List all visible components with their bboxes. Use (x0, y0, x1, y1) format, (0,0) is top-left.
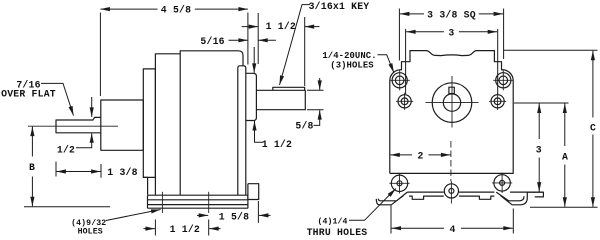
front view: mid-left tap boss (398, 95, 411, 108)
front view: bottom-right boss (494, 175, 510, 191)
svg-text:3: 3 (536, 145, 542, 156)
side view: base hole centerline left (161, 192, 163, 213)
side view: rear shaft (256, 90, 305, 109)
svg-text:1 5/8: 1 5/8 (219, 211, 249, 222)
side view: base hole centerline right (208, 192, 210, 213)
side view: motor body (180, 51, 243, 66)
side view: output shaft centerline (28, 125, 118, 127)
dimension C top extension (504, 49, 598, 51)
dimension 1 1/2 base holes (144, 228, 155, 230)
svg-text:1 3/8: 1 3/8 (107, 167, 137, 178)
svg-text:3: 3 (448, 27, 454, 38)
side view: rear shaft key (273, 87, 305, 90)
dimension 1 1/2 rear shaft extension lines (258, 13, 305, 86)
svg-text:2: 2 (417, 150, 423, 161)
side view: face plate lower step (143, 177, 147, 194)
dimension B baseline extension (24, 206, 110, 208)
dimension 4 (392, 227, 445, 229)
svg-text:OVER FLAT: OVER FLAT (1, 89, 56, 100)
front view: top-left corner boss (392, 73, 407, 88)
svg-text:1 1/2: 1 1/2 (262, 139, 292, 150)
dimension 1/2 shaft dia upper arrow (91, 97, 93, 117)
side view: gearbox mid band (155, 54, 180, 195)
dimension C (592, 51, 594, 118)
dimension 2 (390, 154, 412, 156)
svg-text:3 3/8 SQ: 3 3/8 SQ (427, 10, 476, 21)
dimension 3 right (538, 104, 540, 140)
front view: top-right corner boss (496, 73, 511, 88)
svg-text:5/8: 5/8 (295, 120, 313, 131)
side view: gearbox face plate (143, 69, 155, 177)
svg-text:1 1/2: 1 1/2 (170, 224, 200, 235)
svg-text:B: B (29, 162, 35, 173)
dimension 4 extension lines (391, 205, 513, 233)
svg-text:(4)1/4: (4)1/4 (317, 217, 347, 227)
leader 3/16x1 key (280, 5, 310, 85)
svg-text:C: C (590, 122, 596, 133)
side view: rear foot bracket (248, 184, 259, 200)
dimension 5/8 extension lines (307, 90, 324, 109)
svg-text:1 1/2: 1 1/2 (266, 21, 296, 32)
dimension 3 top extension lines (406, 29, 498, 94)
dimension 1 3/8 (56, 171, 78, 173)
dimension 1 1/2 base holes extension lines (155, 220, 208, 236)
front view: central boss (432, 83, 472, 123)
dimension 1 5/8 extension line right (257, 201, 259, 223)
dimension 5/8 arrows and leader (319, 78, 321, 90)
dimension C bottom extension (530, 206, 598, 208)
front view: shaft hole (443, 94, 460, 111)
dimension 1 3/8 extension lines (56, 162, 101, 178)
svg-text:A: A (562, 152, 568, 163)
dimension 1 1/2 rear hub dia upper arrow (253, 47, 255, 73)
dimension A and 3 top extension (514, 102, 569, 104)
front view: keyway (449, 87, 454, 93)
side view: rear cap (238, 66, 246, 195)
dimension 4 5/8 extension lines (100, 13, 248, 97)
svg-text:3/16x1 KEY: 3/16x1 KEY (309, 1, 370, 12)
side view: base plate (148, 195, 248, 208)
leader (4)9/32 holes (106, 210, 161, 221)
front view: left foot (376, 192, 407, 205)
front view: bottom-center boss (444, 184, 458, 198)
dimension 1 1/2 rear hub dia lower arrow and leader (255, 121, 264, 142)
svg-text:4: 4 (450, 224, 456, 235)
dimension 3 3/8 SQ extension lines (399, 9, 503, 61)
svg-text:(3)HOLES: (3)HOLES (330, 60, 374, 70)
leader 1/4-20unc holes (378, 55, 394, 73)
dimension 3 3/8 SQ (400, 13, 424, 15)
front view: central boss centerlines (426, 76, 479, 128)
leader 7/16 over flat (41, 83, 74, 115)
dimension 3 top (406, 31, 444, 33)
dimension A (564, 104, 566, 147)
side view: front bearing hub (101, 100, 144, 150)
front view: mounting plane line (407, 191, 543, 193)
dimension 5/16 (229, 39, 248, 41)
front view: right end bracket hook (527, 192, 543, 197)
leader (4)1/4 thru holes (349, 189, 396, 221)
svg-text:1/2: 1/2 (57, 144, 75, 155)
front view: mid-right tap boss (491, 95, 504, 108)
svg-text:HOLES: HOLES (78, 227, 103, 236)
front view: vertical centerline (450, 141, 452, 182)
side view: rear bearing hub (246, 73, 257, 120)
svg-text:4 5/8: 4 5/8 (161, 5, 191, 16)
dimension 1 1/2 rear shaft (242, 26, 259, 28)
svg-text:5/16: 5/16 (200, 36, 224, 47)
front view: bracket lower line with tabs (409, 196, 494, 199)
dimension 4 5/8 (100, 8, 157, 10)
front view: bottom-left boss (391, 175, 407, 191)
dimension B (31, 127, 33, 157)
dimension 1 5/8 (197, 214, 208, 216)
front view: right foot (496, 192, 527, 205)
dimension 1/2 shaft dia lower arrow and leader (76, 133, 92, 148)
svg-text:THRU HOLES: THRU HOLES (307, 227, 368, 237)
front view: housing outline (390, 51, 513, 174)
side view: output shaft (56, 117, 101, 132)
